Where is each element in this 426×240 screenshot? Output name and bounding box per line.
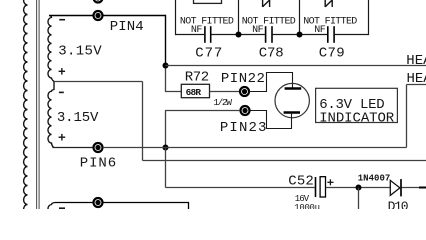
label - winding B: [59, 91, 64, 93]
node junction dot C52 line: [356, 185, 362, 191]
wire vertical PIN4 net upper (dark): [165, 15, 167, 66]
connector pin above PIN4 (cut off): [94, 0, 103, 3]
diode fragment top cell 2: [263, 0, 270, 7]
wire vertical down to C52 line: [165, 148, 167, 188]
wire vertical PIN23 net to PIN6 net: [165, 111, 167, 148]
label + winding B: [59, 134, 66, 141]
transformer core: [36, 0, 38, 209]
svg-text:NF: NF: [191, 25, 203, 36]
label + winding A: [59, 68, 66, 75]
divider vertical at 299: [299, 0, 301, 32]
wire right edge stub (dark): [419, 187, 426, 189]
label + C52: [327, 179, 333, 185]
node junction dot PIN6 net: [163, 145, 169, 151]
transformer secondary winding C (bottom, cut off): [48, 203, 55, 214]
svg-text:PIN6: PIN6: [80, 156, 117, 172]
node junction dot bus 2: [297, 32, 303, 38]
wire tube bottom to PIN23: [250, 111, 292, 129]
connector PIN6: [94, 143, 103, 152]
transformer secondary winding B (3.15V lower): [48, 82, 54, 148]
wire R72 left lead: [165, 91, 181, 93]
svg-text:1/2W: 1/2W: [213, 97, 232, 108]
svg-text:68R: 68R: [186, 87, 202, 98]
diode fragment top cell 3: [325, 0, 332, 7]
svg-text:PIN4: PIN4: [110, 19, 144, 35]
wire PIN6 net to right corner: [103, 147, 407, 149]
wire center tap to right edge: [143, 160, 426, 162]
svg-text:NOT FITTED: NOT FITTED: [180, 16, 234, 27]
tube heater top bar: [285, 87, 302, 90]
svg-text:C79: C79: [319, 45, 345, 61]
connector pin bottom: [94, 198, 103, 207]
svg-text:NF: NF: [252, 25, 264, 36]
top bus segment 4: [335, 34, 369, 36]
wire C52 line left: [166, 187, 315, 189]
resistor fragment top (cut off): [194, 0, 222, 3]
svg-text:NOT FITTED: NOT FITTED: [242, 16, 296, 27]
top section right vertical: [368, 0, 370, 35]
svg-text:1000u: 1000u: [294, 203, 320, 209]
resistor R72 box: [181, 84, 209, 97]
divider vertical at 238: [238, 0, 240, 32]
wire center tap horizontal: [54, 81, 143, 83]
LED indicator box: [316, 88, 398, 122]
top bus segment 2: [211, 34, 265, 36]
svg-text:R72: R72: [185, 70, 210, 86]
wire R72 to PIN22: [210, 91, 240, 93]
tube V1 envelope circle: [275, 83, 309, 117]
transformer T primary winding: [24, 0, 28, 214]
connector PIN4: [94, 11, 103, 20]
wire vertical PIN4 net lower to R72: [165, 66, 167, 93]
svg-text:HEAT: HEAT: [406, 53, 426, 69]
top bus segment 3: [273, 34, 328, 36]
capacitor C52 left plate: [315, 177, 317, 197]
capacitor C52 right plate box: [320, 177, 325, 197]
label - winding A top: [59, 19, 65, 21]
wire HEATER 2 out: [407, 84, 426, 86]
top bus segment 1: [175, 34, 204, 36]
top section left vertical: [175, 0, 177, 35]
svg-text:C77: C77: [195, 45, 222, 61]
wire down from junction: [358, 188, 360, 210]
wire vertical right edge up: [406, 85, 408, 148]
svg-text:3.15V: 3.15V: [57, 110, 99, 126]
node junction dot bus 1: [236, 32, 242, 38]
capacitor C77 plates: [205, 26, 211, 43]
wire winding A to PIN4: [49, 15, 93, 17]
svg-text:INDICATOR: INDICATOR: [319, 111, 395, 127]
svg-text:D10: D10: [388, 199, 409, 209]
connector PIN23: [241, 106, 250, 115]
transformer secondary winding A (3.15V upper): [48, 16, 54, 82]
svg-text:HEAT: HEAT: [407, 71, 426, 87]
diode D10: [390, 179, 401, 196]
label - winding C: [59, 207, 65, 209]
capacitor C78 plates: [266, 26, 272, 43]
svg-text:PIN22: PIN22: [221, 71, 265, 87]
capacitor C79 plates: [328, 26, 334, 43]
wire center tap vertical: [142, 82, 144, 161]
svg-text:NOT FITTED: NOT FITTED: [303, 16, 357, 27]
node junction dot heater net: [163, 63, 169, 69]
svg-text:3.15V: 3.15V: [58, 44, 102, 60]
wire PIN4 to corner: [103, 15, 166, 17]
wire PIN22 to tube jog: [250, 73, 293, 92]
wire winding C to bottom pin: [55, 202, 93, 204]
svg-text:PIN23: PIN23: [220, 120, 267, 136]
svg-text:C78: C78: [259, 45, 284, 61]
wire HEATER 1 out: [166, 65, 426, 67]
wire PIN23 left to corner: [165, 110, 240, 112]
wire bottom pin to corner down: [103, 203, 189, 210]
wire winding B to PIN6: [52, 147, 93, 149]
svg-text:C52: C52: [288, 174, 314, 190]
svg-text:1N4007: 1N4007: [358, 174, 391, 184]
connector PIN22: [240, 87, 249, 96]
tube heater bottom bar: [284, 111, 300, 114]
svg-text:NF: NF: [314, 25, 326, 36]
wire C52 right to edge: [326, 187, 426, 189]
